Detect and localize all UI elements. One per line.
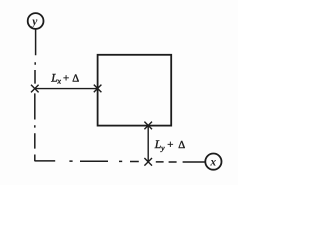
svg-text:y: y xyxy=(30,16,38,28)
svg-text:Δ: Δ xyxy=(178,139,185,151)
svg-text:x: x xyxy=(209,157,216,169)
svg-text:x: x xyxy=(57,77,62,86)
svg-text:+: + xyxy=(63,72,69,84)
svg-text:y: y xyxy=(160,144,165,153)
svg-text:+: + xyxy=(167,139,173,151)
svg-text:Δ: Δ xyxy=(72,73,79,85)
